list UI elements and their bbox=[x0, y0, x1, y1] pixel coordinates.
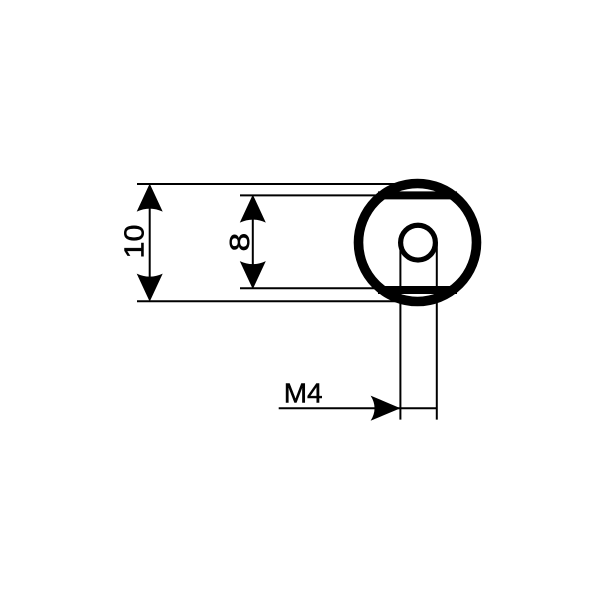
svg-text:10: 10 bbox=[118, 225, 150, 259]
svg-text:M4: M4 bbox=[284, 378, 323, 409]
svg-text:8: 8 bbox=[223, 233, 255, 252]
